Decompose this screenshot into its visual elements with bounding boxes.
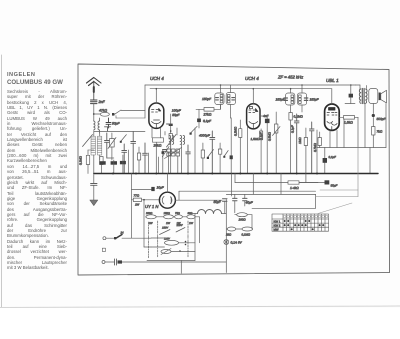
- capacitor c4: [143, 143, 148, 174]
- wire speaker down: [385, 104, 387, 148]
- svg-text:0,1MΩ: 0,1MΩ: [242, 233, 251, 237]
- verticals UBL area: [316, 130, 318, 174]
- resistor 0,1M right: [289, 113, 292, 121]
- svg-text:50pF: 50pF: [112, 122, 121, 126]
- wire tube2 left leg: [247, 126, 249, 174]
- cap 500pF mixer: [197, 119, 201, 123]
- tube V1 UCH4: [149, 103, 164, 128]
- line y194: [226, 193, 315, 195]
- resistor vert mid: [137, 153, 140, 160]
- svg-text:77Ω: 77Ω: [134, 194, 140, 198]
- IF transformer 1: [215, 93, 236, 105]
- top bus line 2: [150, 88, 332, 90]
- svg-text:0,1μF: 0,1μF: [329, 155, 337, 159]
- resistor 27k horizontal: [204, 108, 214, 112]
- rectifier tube UY1N circle: [159, 192, 175, 208]
- variable cap arrows left: [162, 147, 169, 157]
- capacitor c1: [105, 133, 110, 158]
- resistor RF oval: [100, 112, 109, 116]
- cap 10uF: [132, 189, 152, 191]
- resistor vert osc: [201, 150, 204, 158]
- svg-text:2nF: 2nF: [98, 100, 106, 104]
- variable arrow osc coils: [167, 135, 177, 148]
- svg-text:1W: 1W: [166, 222, 170, 225]
- svg-text:60Ω: 60Ω: [188, 212, 193, 215]
- svg-text:500pF: 500pF: [377, 117, 387, 121]
- dial lamp: [224, 240, 229, 245]
- wire to RF resistor: [94, 113, 100, 115]
- svg-text:24: 24: [120, 231, 125, 235]
- svg-text:7kΩ: 7kΩ: [377, 130, 383, 134]
- osc coil 1: [169, 135, 174, 144]
- wire circle top to bus: [166, 174, 168, 193]
- small cap blob right: [162, 151, 165, 154]
- svg-text:0,2MΩ: 0,2MΩ: [234, 126, 238, 136]
- top bus line 1: [145, 84, 356, 86]
- IF1 wires: [220, 85, 222, 93]
- resistor vert right osc: [218, 149, 221, 154]
- ground stub top: [105, 127, 111, 131]
- paper cap blob 3: [120, 161, 126, 164]
- resistor 1M: [304, 138, 307, 146]
- antenna coil left: [94, 118, 100, 133]
- mains plug terminal: [102, 261, 105, 264]
- resistor 77ohm heater: [132, 199, 161, 201]
- svg-text:75Ω: 75Ω: [175, 212, 180, 215]
- svg-text:150pF: 150pF: [310, 98, 320, 102]
- svg-text:47kΩ: 47kΩ: [99, 109, 107, 113]
- drop from bus to RWd: [144, 85, 146, 118]
- resistor 1,5k right of tube3: [344, 116, 355, 120]
- diagonal wire to table: [318, 203, 352, 214]
- svg-text:50μF: 50μF: [172, 113, 180, 117]
- resistor 180 ohm: [237, 213, 248, 217]
- antenna: [87, 78, 102, 100]
- svg-text:UCH 4: UCH 4: [150, 76, 164, 81]
- wire tube2 top: [252, 89, 254, 104]
- feedback wire loop: [320, 189, 358, 191]
- resistor vert left: [86, 155, 89, 164]
- main chassis bus: [94, 173, 378, 175]
- node heater junction: [143, 199, 145, 201]
- switch contact: [112, 113, 114, 116]
- svg-text:2kΩ: 2kΩ: [225, 233, 232, 237]
- svg-text:50μF: 50μF: [331, 184, 338, 188]
- svg-text:150pF: 150pF: [276, 98, 286, 102]
- tube V2 UCH4: [247, 104, 260, 129]
- svg-text:0,5MΩ: 0,5MΩ: [268, 131, 272, 141]
- lines below bus mid: [231, 174, 233, 197]
- svg-text:10μF: 10μF: [157, 186, 165, 190]
- paper cap blob 2: [111, 161, 117, 165]
- capacitor 2nF antenna: [91, 100, 98, 104]
- band coil block 2: [98, 136, 102, 155]
- cap 0,1uF: [294, 114, 299, 174]
- resistor 7k: [372, 127, 375, 136]
- tube V2 electrodes: [249, 107, 258, 129]
- svg-text:150V: 150V: [162, 227, 168, 230]
- svg-text:0,1μF: 0,1μF: [291, 125, 295, 133]
- svg-text:40μF: 40μF: [246, 201, 254, 205]
- electrolytic 40uF b: [243, 198, 247, 200]
- svg-text:150pF: 150pF: [202, 97, 212, 101]
- cap 100pF: [167, 123, 172, 125]
- svg-text:UBL 1: UBL 1: [326, 78, 339, 83]
- ground arrow: [90, 200, 98, 206]
- switch diag osc: [190, 126, 197, 133]
- wire tube3 top: [331, 89, 333, 104]
- switch diagonal: [121, 135, 127, 142]
- svg-text:1,5kΩ: 1,5kΩ: [344, 121, 353, 125]
- svg-text:1W: 1W: [149, 222, 153, 225]
- capacitor c3: [122, 144, 127, 174]
- tube V1 electrodes: [152, 108, 162, 128]
- cap 50uF: [223, 199, 228, 201]
- wire tube1 top: [155, 89, 157, 103]
- resistor 0,7M: [318, 138, 321, 146]
- vertical right of choke: [225, 200, 227, 273]
- vertical wires osc to bus: [170, 144, 172, 149]
- svg-text:UY 1 N: UY 1 N: [145, 204, 159, 209]
- table header circles: [283, 215, 328, 218]
- page edge bottom: [0, 306, 400, 308]
- table dots: [284, 220, 325, 230]
- svg-text:1W: 1W: [189, 222, 193, 225]
- electrolytic 40uF a: [233, 198, 237, 200]
- svg-text:0,1MΩ: 0,1MΩ: [79, 155, 83, 165]
- dash-dot coupling rails: [148, 222, 150, 258]
- node antenna junction: [93, 113, 95, 115]
- svg-text:UCH 4: UCH 4: [245, 76, 259, 81]
- switch diag 2: [208, 150, 214, 158]
- left descriptive text column: [7, 73, 67, 271]
- resistor 1-4k: [288, 181, 299, 184]
- node dots top buses: [156, 84, 352, 89]
- svg-text:110V: 110V: [164, 238, 170, 241]
- svg-text:0,1A 6V: 0,1A 6V: [231, 241, 243, 245]
- cap chain right of tube1: [169, 124, 173, 126]
- resistor variable box: [110, 139, 115, 148]
- svg-text:200Ω: 200Ω: [145, 212, 152, 215]
- IF transformer 2: [284, 93, 308, 105]
- selector arrows: [160, 230, 171, 235]
- bus junction dots: [112, 173, 318, 175]
- dropper resistor row: [146, 215, 156, 219]
- switch table: [272, 214, 329, 231]
- network wires: [151, 237, 165, 239]
- wire band select: [121, 109, 145, 111]
- resistor ovals row: [227, 227, 235, 231]
- svg-text:150Ω: 150Ω: [164, 212, 170, 215]
- cap blob mid: [230, 155, 233, 159]
- wire circle branch up: [178, 191, 180, 200]
- cap blob near transformer: [349, 94, 353, 98]
- paper cap blob 1: [99, 161, 105, 165]
- wire horiz cluster top: [94, 131, 145, 133]
- right side wiring: [372, 104, 374, 114]
- resistor 0,2M left of tube2: [239, 129, 242, 138]
- speaker: [369, 89, 378, 104]
- IF2 wires: [290, 89, 292, 93]
- wire circle right: [175, 199, 222, 201]
- coils inside: [220, 95, 230, 103]
- svg-text:0,7MΩ: 0,7MΩ: [313, 142, 317, 152]
- output transformer: [359, 89, 367, 104]
- svg-text:1MΩ: 1MΩ: [298, 137, 302, 144]
- svg-text:0,1μF: 0,1μF: [203, 119, 212, 123]
- page edge left: [1, 55, 3, 312]
- ground drop left: [93, 174, 95, 184]
- caps: [216, 98, 219, 100]
- osc coil 2: [180, 135, 185, 144]
- pot slider chain: [275, 124, 278, 133]
- svg-text:20kΩ: 20kΩ: [153, 144, 162, 148]
- svg-text:1W: 1W: [135, 203, 140, 207]
- mains switch: [103, 237, 106, 240]
- svg-text:50μF: 50μF: [214, 200, 222, 204]
- capacitor c2: [131, 132, 136, 174]
- svg-text:MW: MW: [274, 228, 279, 232]
- resistor mid: [260, 131, 263, 140]
- capacitor 50pF input: [106, 118, 111, 128]
- tube V3 electrodes: [327, 108, 337, 131]
- svg-text:4000pF: 4000pF: [199, 134, 211, 138]
- wire stubs cluster: [128, 150, 130, 174]
- svg-text:0,1μF: 0,1μF: [259, 132, 263, 140]
- wire antenna down: [93, 104, 95, 121]
- resistor 20k below tube1: [153, 138, 164, 142]
- variable arrow across coil: [83, 135, 93, 147]
- horizontal line right y147: [317, 147, 386, 149]
- tube V3 UBL1: [325, 104, 340, 130]
- voltage selector network: [145, 212, 200, 273]
- resistor 0,1M vertical: [100, 157, 103, 165]
- cap 500pF osc: [186, 145, 191, 174]
- svg-text:220V: 220V: [176, 224, 183, 227]
- cap right cluster: [310, 122, 315, 174]
- svg-text:180Ω: 180Ω: [239, 218, 247, 222]
- lower oval with arrow: [161, 250, 171, 254]
- band coil block 1: [91, 136, 95, 155]
- wire top cluster: [93, 131, 95, 136]
- wire 27k: [196, 108, 204, 110]
- resistor below: [169, 134, 172, 140]
- schematic border frame: [78, 64, 390, 275]
- trimmer block: [165, 148, 182, 159]
- svg-text:1-4kΩ: 1-4kΩ: [290, 186, 299, 190]
- filter choke: [198, 210, 222, 214]
- svg-text:27kΩ: 27kΩ: [203, 113, 212, 117]
- heater feed wire: [131, 174, 133, 239]
- cap 4000pF: [210, 131, 215, 174]
- svg-text:0,1MΩ: 0,1MΩ: [294, 115, 304, 119]
- cap 4nF blob: [265, 119, 270, 123]
- svg-text:ZF = 452 kHz: ZF = 452 kHz: [277, 75, 304, 80]
- switch diag 3: [224, 151, 228, 157]
- mid resistor oval: [165, 240, 179, 245]
